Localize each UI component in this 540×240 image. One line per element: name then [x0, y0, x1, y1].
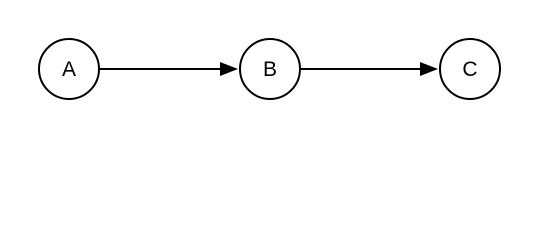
arrowhead into B — [220, 62, 238, 76]
arrowhead into C — [420, 62, 438, 76]
node B — [240, 39, 300, 99]
node C — [440, 39, 500, 99]
svg-text:B: B — [263, 58, 277, 81]
svg-text:C: C — [462, 58, 477, 81]
svg-text:A: A — [62, 58, 76, 81]
wire B to C — [301, 68, 421, 70]
node A — [39, 39, 99, 99]
wire A to B — [100, 68, 221, 70]
